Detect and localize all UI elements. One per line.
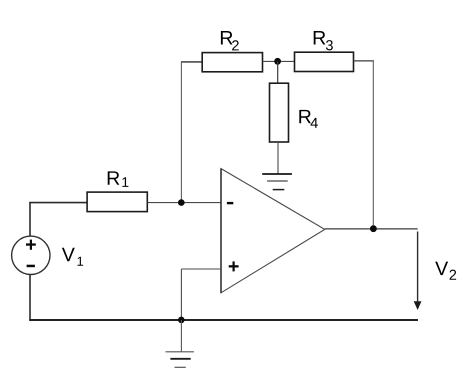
ground symbol bottom [166, 352, 194, 368]
node junction dot output [370, 225, 377, 232]
wire node down to R4 [277, 61, 279, 83]
resistor R3 [295, 52, 354, 71]
wire R3 right to corner [354, 60, 374, 62]
label R2 [221, 31, 239, 50]
label R4 [299, 110, 318, 128]
wire R4 bottom to ground [277, 142, 279, 174]
wire vertical from + input down to bottom rail [180, 269, 182, 320]
wire R1 to op-amp inverting input [147, 202, 221, 204]
resistor R1 [87, 192, 147, 212]
V1 plus sign [26, 240, 36, 250]
wire non-inverting input [181, 268, 221, 270]
arrow V2 head [414, 301, 422, 310]
wire op-amp output [325, 228, 418, 230]
label R3 [314, 31, 333, 50]
op-amp plus sign [229, 261, 239, 271]
label R1 [108, 171, 129, 187]
wire top-left horizontal stub to R2 [181, 61, 203, 63]
op-amp minus sign [227, 202, 233, 204]
voltage source V1 circle [12, 236, 50, 274]
wire R2 to R3 through node [263, 60, 295, 62]
bottom rail wire [29, 319, 418, 321]
node junction dot inverting input [178, 199, 185, 206]
node junction dot top (R2/R3/R4) [274, 58, 281, 65]
node junction dot bottom rail [178, 317, 185, 324]
wire vertical right (R3 to output node) [372, 61, 374, 229]
resistor R4 [270, 83, 289, 142]
ground symbol under R4 [262, 174, 292, 190]
arrow V2 line [417, 232, 419, 303]
op-amp U1 triangle [221, 169, 325, 293]
label V1 [62, 248, 83, 266]
wire left rail horizontal to R1 [29, 202, 87, 204]
wire left rail vertical lower (V1 to bottom rail) [29, 274, 31, 320]
op-amp left edge accent [220, 169, 222, 293]
wire left rail vertical upper (to V1 top) [29, 202, 31, 237]
wire bottom ground stub [180, 320, 182, 352]
resistor R2 [202, 53, 262, 72]
wire vertical feedback left (R2 left down to inverting node) [180, 62, 182, 203]
V1 minus sign [27, 265, 35, 268]
label V2 [435, 262, 456, 280]
